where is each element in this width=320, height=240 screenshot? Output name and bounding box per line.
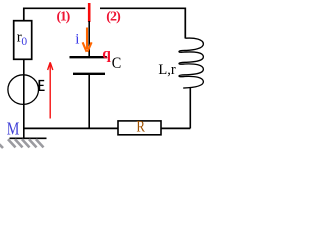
wire r0 bottom through source E down to ground — [23, 59, 25, 138]
wire top-right from contact (2) to inductor — [100, 8, 185, 38]
bottom rail wire M to right branch — [24, 127, 191, 129]
svg-text:(1): (1) — [57, 9, 71, 24]
arrow for E (red, upward) — [48, 62, 53, 118]
svg-text:i: i — [75, 31, 79, 47]
wire capacitor bottom plate to bottom rail — [88, 74, 90, 129]
svg-text:M: M — [7, 118, 20, 138]
ground bar at M — [10, 137, 47, 139]
svg-text:(2): (2) — [106, 9, 121, 24]
svg-text:0: 0 — [21, 36, 27, 48]
capacitor C bottom plate — [73, 73, 105, 75]
svg-text:L,r: L,r — [158, 62, 175, 78]
svg-text:R: R — [136, 118, 145, 135]
wire top-left from r0 top to switch contact (1) — [24, 8, 86, 21]
inductor L,r coil — [179, 38, 203, 88]
capacitor C top plate — [70, 56, 107, 58]
switch blade K (red) — [88, 3, 91, 22]
source E circle — [8, 75, 39, 105]
resistor R box — [118, 121, 161, 135]
label E — [39, 80, 45, 91]
svg-text:q: q — [102, 45, 111, 62]
svg-text:C: C — [112, 55, 122, 72]
resistor r0 box — [14, 21, 32, 60]
current arrow i (orange, downward) — [83, 28, 92, 52]
ground hatching — [0, 139, 44, 148]
wire bottom rail to inductor bottom (right branch) — [189, 88, 191, 128]
wire switch to capacitor top plate — [88, 21, 90, 57]
